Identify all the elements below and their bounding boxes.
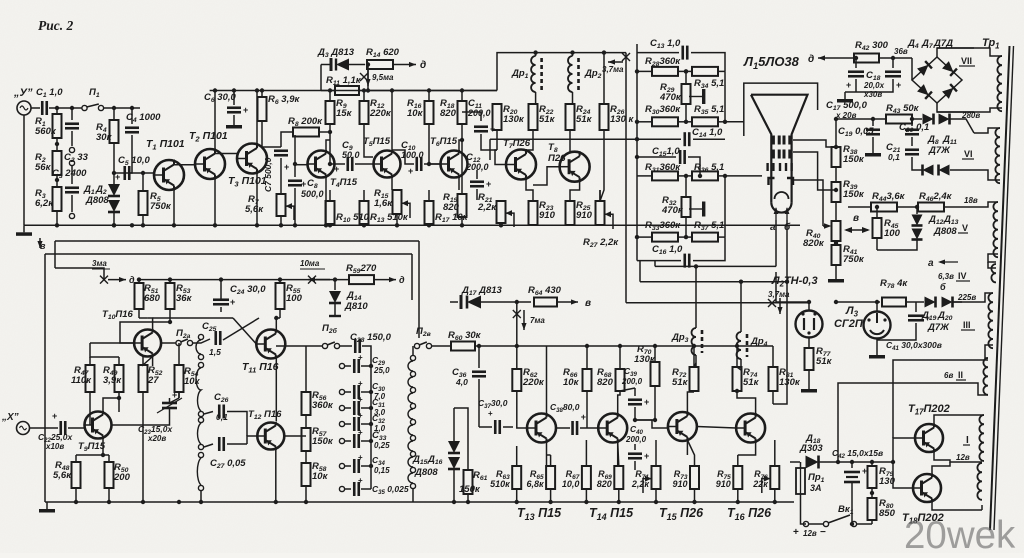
wire T15 emitter bbox=[686, 441, 688, 455]
switch П2б bbox=[322, 342, 339, 349]
wire R44 row left bbox=[848, 206, 871, 208]
wire R54 bottom bbox=[178, 392, 180, 398]
label П2в bbox=[416, 326, 431, 338]
wire Др3 top bbox=[695, 266, 697, 328]
svg-text:С7 500,0: С7 500,0 bbox=[263, 157, 273, 192]
label д sweep bbox=[399, 275, 405, 285]
svg-text:R14 620: R14 620 bbox=[366, 47, 400, 59]
wire C11 top bbox=[462, 112, 481, 121]
svg-text:R462,4к: R462,4к bbox=[919, 191, 953, 203]
resistor R33 bbox=[645, 220, 681, 242]
wire R67 top bbox=[585, 440, 587, 466]
inductor Др3 bbox=[692, 328, 703, 355]
wire T4 collector bbox=[326, 140, 330, 150]
battery terminals bbox=[803, 521, 823, 526]
wire R30 left bbox=[637, 121, 652, 123]
wire R45 top bbox=[876, 207, 878, 218]
feedback wire 2 right leg bbox=[411, 254, 413, 300]
svg-text:6в: 6в bbox=[944, 371, 953, 380]
wire R27 top bbox=[600, 167, 604, 201]
wire C38 to T14 bbox=[580, 427, 598, 429]
label 280в bbox=[961, 111, 980, 120]
wire R81 bottom bbox=[772, 391, 774, 404]
svg-text:27: 27 bbox=[147, 375, 159, 386]
wire T2 collector to T3 bbox=[215, 150, 237, 154]
wire emitter rail bbox=[76, 454, 109, 456]
svg-text:+: + bbox=[358, 428, 363, 437]
wire R43 right bbox=[912, 118, 922, 120]
wire T7 base bbox=[495, 150, 506, 165]
wire C12 bottom bbox=[476, 189, 478, 200]
winding IV bbox=[991, 264, 996, 282]
stub winding VII top bbox=[937, 48, 1002, 56]
wire T13 base bbox=[517, 420, 526, 428]
svg-text:3ма: 3ма bbox=[92, 259, 107, 268]
wire R29 bottom bbox=[685, 104, 687, 122]
inductor Др1 bbox=[531, 56, 542, 92]
wire C39 top bbox=[634, 388, 636, 396]
main bus top section bbox=[24, 224, 800, 226]
resistor R16 bbox=[407, 91, 434, 125]
resistor R59 bbox=[346, 263, 377, 284]
wire R44-R46 bbox=[897, 206, 918, 208]
svg-text:а: а bbox=[770, 222, 776, 233]
wire T8 base bbox=[533, 167, 560, 185]
capacitor C36 bbox=[452, 367, 486, 387]
resistor R64 bbox=[528, 285, 562, 307]
resistor R50 bbox=[105, 462, 131, 488]
svg-text:820: 820 bbox=[443, 202, 460, 213]
wire C20-C21 bbox=[911, 137, 913, 146]
svg-text:С1 1,0: С1 1,0 bbox=[36, 87, 63, 99]
wire R66 bottom bbox=[586, 391, 588, 428]
capacitor C25 bbox=[202, 321, 221, 357]
wire Х to C22 bbox=[30, 427, 59, 429]
wire C18b top bbox=[892, 58, 894, 68]
wire П2б to C28 bbox=[340, 345, 353, 347]
wire R73 top bbox=[687, 440, 694, 466]
wire T4 base bbox=[295, 164, 307, 166]
label П1 bbox=[89, 87, 100, 99]
transformer Тр1 core bbox=[990, 46, 1014, 530]
capacitor C1 bbox=[36, 87, 63, 115]
label в bottom-left bbox=[40, 241, 46, 251]
svg-text:6,3в: 6,3в bbox=[938, 272, 954, 281]
svg-text:20wek: 20wek bbox=[904, 514, 1016, 553]
wire R70 top bbox=[654, 346, 656, 362]
svg-text:Д810: Д810 bbox=[344, 301, 368, 312]
svg-text:Д17 Д813: Д17 Д813 bbox=[461, 285, 503, 297]
wire crossing to Т11 bbox=[223, 318, 259, 344]
svg-text:7ма: 7ма bbox=[530, 316, 545, 325]
wire R76 top bbox=[774, 440, 776, 466]
wire C4 bottom bbox=[114, 135, 132, 173]
resistor R60 bbox=[448, 330, 482, 351]
stub winding V-IV bbox=[988, 254, 998, 262]
svg-text:51к: 51к bbox=[576, 114, 593, 125]
wire R57-R58 bbox=[305, 451, 307, 463]
wire R71 top bbox=[655, 440, 657, 466]
svg-text:R43 50к: R43 50к bbox=[886, 103, 920, 115]
resistor R55 bbox=[276, 283, 303, 309]
diode Д3 bbox=[331, 58, 349, 71]
capacitor C10 bbox=[401, 140, 424, 176]
label C41 bbox=[886, 340, 942, 352]
svg-text:3,9к: 3,9к bbox=[103, 375, 122, 386]
label Д17 Д813 bbox=[461, 285, 503, 297]
capacitor C4 bbox=[125, 112, 161, 132]
svg-text:д: д bbox=[420, 60, 426, 71]
label VI bbox=[962, 149, 974, 159]
transistor Т16 bbox=[727, 413, 772, 522]
label Вк1 bbox=[838, 504, 854, 516]
capacitor C20 bbox=[899, 122, 929, 134]
resistor R63 bbox=[490, 466, 521, 489]
resistor R58 bbox=[302, 461, 329, 486]
wire С32 out bbox=[361, 423, 371, 425]
x mark 9,5ма bbox=[360, 73, 394, 82]
junction C2 top bbox=[70, 106, 74, 110]
fuse Пр1 bbox=[796, 468, 805, 494]
svg-text:9,5ма: 9,5ма bbox=[372, 73, 394, 82]
resistor R81 bbox=[769, 367, 801, 391]
wire R69 top bbox=[618, 442, 619, 466]
wire R9 bottom bbox=[329, 124, 331, 164]
label Л1 5ЛО38 bbox=[743, 54, 800, 71]
wire R8 right bbox=[319, 131, 330, 133]
svg-text:Д3 Д813: Д3 Д813 bbox=[317, 47, 355, 59]
wire to C27 bbox=[204, 444, 213, 447]
svg-text:+: + bbox=[358, 476, 363, 485]
stub winding I center bbox=[976, 461, 982, 463]
svg-text:+: + bbox=[358, 395, 363, 404]
wire R22 to T7 collector bbox=[526, 130, 533, 150]
svg-text:С19 0,05: С19 0,05 bbox=[838, 126, 874, 138]
capacitor C27 bbox=[210, 437, 246, 470]
label Др1 bbox=[511, 68, 529, 80]
capacitor C41 bbox=[908, 313, 930, 323]
svg-text:Д7Ж: Д7Ж bbox=[928, 145, 951, 156]
wire R16 bottom bbox=[429, 124, 440, 164]
wire R63 top bbox=[516, 446, 518, 466]
wire T15 to T16 bbox=[697, 427, 736, 429]
svg-text:+: + bbox=[644, 451, 649, 461]
label д CRT bbox=[808, 54, 814, 65]
arrow 3ма bbox=[108, 277, 126, 282]
x mark Л2 bbox=[768, 299, 776, 307]
wire R33 left bbox=[637, 236, 652, 238]
wire C11 bottom bbox=[481, 134, 497, 150]
wire R11 left bbox=[321, 90, 335, 92]
wire net д long vertical bbox=[625, 53, 627, 303]
wire bridge top to Tr bbox=[937, 48, 974, 57]
wire T7 emitter bbox=[526, 180, 533, 201]
resistor R56 bbox=[302, 390, 334, 415]
arrow д CRT bbox=[818, 55, 838, 60]
svg-text:100,0: 100,0 bbox=[401, 150, 424, 160]
svg-text:130к: 130к bbox=[634, 354, 656, 365]
capacitor С29 bbox=[354, 353, 390, 375]
wire R36 right bbox=[718, 175, 725, 177]
svg-text:200,0: 200,0 bbox=[625, 435, 647, 444]
svg-text:R64 430: R64 430 bbox=[528, 285, 562, 297]
svg-text:С14 1,0: С14 1,0 bbox=[692, 127, 723, 139]
svg-text:910: 910 bbox=[576, 210, 593, 221]
wire Л2 up leg bbox=[775, 272, 777, 302]
svg-text:Т11 П16: Т11 П16 bbox=[242, 361, 279, 374]
wire R3 bottom bbox=[56, 211, 58, 225]
wire C3 bottom bbox=[71, 195, 73, 212]
capacitor C28 bbox=[350, 332, 392, 353]
label Д8 Д11 Д7Ж bbox=[927, 134, 957, 156]
wire C18b bottom bbox=[845, 79, 893, 92]
svg-text:в: в bbox=[585, 298, 591, 309]
resistor R54 bbox=[175, 365, 201, 392]
inductor Др4 bbox=[737, 332, 748, 359]
wire R1-R2 bbox=[56, 138, 58, 151]
wire R74 top bbox=[736, 346, 738, 367]
wire R20 bottom bbox=[496, 130, 498, 150]
label П2б bbox=[322, 323, 338, 335]
wire contacts bottom bbox=[200, 491, 202, 502]
wire ladder right rail upper bbox=[724, 71, 726, 121]
svg-text:+: + bbox=[284, 162, 289, 172]
wire R77 bottom bbox=[808, 370, 810, 382]
potentiometer R15 bbox=[374, 188, 410, 218]
wire T13 emitter to R65 bbox=[547, 454, 551, 456]
svg-text:R33360к: R33360к bbox=[645, 220, 681, 232]
resistor R41 bbox=[832, 244, 865, 265]
resistor R30 bbox=[645, 104, 681, 126]
wire R37 right bbox=[718, 236, 725, 238]
svg-text:х10в: х10в bbox=[45, 442, 64, 451]
svg-text:VII: VII bbox=[961, 56, 972, 66]
wire R49 bottom bbox=[118, 392, 120, 412]
wire C19 bottom bbox=[872, 137, 874, 146]
svg-text:+: + bbox=[581, 412, 586, 422]
wire T6 collector bbox=[459, 124, 462, 150]
svg-text:200: 200 bbox=[113, 472, 131, 483]
svg-text:820: 820 bbox=[597, 377, 614, 388]
wire winding II top to bases bbox=[893, 360, 988, 438]
resistor R73 bbox=[672, 466, 699, 489]
plate feed stub a bbox=[654, 261, 656, 267]
resistor R4 bbox=[96, 120, 119, 143]
label 3,7ма top bbox=[602, 65, 624, 74]
capacitor C8 bbox=[288, 178, 324, 199]
feedback wire 2 bbox=[45, 253, 412, 255]
wire R75 top bbox=[737, 455, 739, 466]
diode Д14 bbox=[329, 291, 341, 303]
wire to R59 bbox=[316, 279, 349, 281]
wire R27 bottom bbox=[599, 224, 601, 226]
svg-text:III: III bbox=[963, 320, 971, 330]
wire Др1 top bbox=[535, 53, 537, 56]
wire to C9 bbox=[330, 163, 345, 165]
svg-text:910: 910 bbox=[716, 479, 731, 489]
wire T10 base bias bbox=[120, 322, 170, 343]
wire С32 in bbox=[345, 423, 351, 425]
svg-text:R443,6к: R443,6к bbox=[872, 191, 906, 203]
resistor R35 bbox=[692, 104, 724, 126]
wire П1 to R4/C4 bbox=[104, 107, 141, 109]
wire T1 collector to T2 bbox=[174, 161, 195, 165]
svg-text:С5 10,0: С5 10,0 bbox=[118, 155, 151, 167]
wire C15 right stub bbox=[688, 157, 700, 176]
wire bank common rail bbox=[370, 360, 372, 489]
wire C2 top bbox=[71, 108, 73, 120]
wire Д16 bottom bbox=[453, 469, 455, 502]
potentiometer R21 bbox=[477, 192, 514, 227]
wire R38-R39 bbox=[835, 167, 837, 182]
svg-text:R31360к: R31360к bbox=[645, 162, 681, 174]
resistor R42 bbox=[854, 40, 889, 63]
wire bridge bottom to Tr bbox=[937, 103, 974, 112]
stub winding I top bbox=[983, 414, 985, 416]
svg-text:0,25: 0,25 bbox=[374, 441, 390, 450]
resistor R66 bbox=[563, 367, 592, 391]
wire C5 to T1 bbox=[130, 172, 154, 174]
diode Д2 bbox=[108, 200, 120, 212]
svg-text:0,1: 0,1 bbox=[888, 152, 900, 162]
resistor R74 bbox=[733, 367, 760, 391]
svg-text:Т1 П101: Т1 П101 bbox=[146, 138, 185, 151]
svg-text:820: 820 bbox=[440, 108, 457, 119]
svg-text:10к: 10к bbox=[563, 377, 580, 388]
svg-text:750к: 750к bbox=[843, 254, 865, 265]
svg-text:Рис. 2: Рис. 2 bbox=[38, 18, 73, 33]
stub winding III-II bbox=[985, 345, 993, 358]
wire C23 top bbox=[170, 398, 180, 403]
capacitor C39 bbox=[621, 366, 649, 407]
resistor R75 bbox=[716, 466, 743, 489]
wire winding II bottom loop bbox=[838, 383, 988, 462]
wire R61 bottom bbox=[467, 494, 469, 502]
svg-text:+: + bbox=[358, 453, 363, 462]
wire R48 bottom bbox=[75, 488, 77, 502]
wire Др1 bottom bbox=[535, 92, 537, 104]
capacitor С30 bbox=[354, 379, 385, 401]
wire C2-C3 contact bbox=[71, 131, 73, 146]
wire Д12 top bbox=[916, 207, 918, 214]
x mark 3,7ма bbox=[622, 53, 630, 61]
resistor R38 bbox=[832, 144, 865, 167]
label Др3 bbox=[671, 332, 689, 344]
resistor R9 bbox=[326, 91, 353, 125]
capacitor C5 bbox=[115, 155, 151, 182]
svg-text:560к: 560к bbox=[35, 126, 57, 137]
transistor Т10 bbox=[102, 309, 161, 357]
capacitor C24 bbox=[213, 284, 266, 307]
wire R17 top bbox=[428, 190, 430, 201]
svg-text:С16 1,0: С16 1,0 bbox=[652, 244, 683, 256]
wire R29 top bbox=[685, 71, 687, 84]
resistor R22 bbox=[529, 104, 556, 130]
resistor R79 bbox=[868, 466, 896, 488]
switch Вк1 bbox=[823, 515, 856, 527]
wire C36 top bbox=[478, 346, 480, 368]
svg-text:12в: 12в bbox=[956, 453, 970, 462]
wire R68 top bbox=[619, 346, 621, 369]
ground C6 bbox=[226, 118, 242, 129]
capacitor C9 bbox=[342, 140, 360, 171]
CRT pins а б bbox=[770, 207, 791, 233]
wire У to C1 bbox=[31, 107, 40, 109]
svg-text:+: + bbox=[358, 379, 363, 388]
capacitor C13 bbox=[650, 38, 687, 60]
wire Д15 top bbox=[453, 408, 455, 441]
svg-text:820к: 820к bbox=[803, 238, 825, 249]
wire bridge left bbox=[911, 58, 913, 80]
wire plate feed left leg bbox=[489, 139, 491, 160]
wire П2в top bbox=[412, 346, 414, 355]
diode Д17 bbox=[467, 296, 481, 309]
wire R13 top bbox=[363, 190, 365, 201]
arrow а net bbox=[928, 258, 958, 269]
resistor R80 bbox=[868, 498, 896, 520]
svg-text:10ма: 10ма bbox=[300, 259, 320, 268]
svg-text:R10 510: R10 510 bbox=[336, 212, 370, 224]
wire ladder left rail bbox=[636, 44, 638, 261]
wire C20 top bbox=[911, 119, 913, 126]
wire C23 to T9 bbox=[112, 408, 170, 425]
wire base rail bbox=[893, 438, 915, 488]
svg-text:470к: 470к bbox=[659, 92, 682, 103]
resistor R46 bbox=[918, 191, 953, 212]
capacitor С33 bbox=[354, 428, 390, 450]
svg-text:130 к: 130 к bbox=[610, 114, 634, 125]
svg-text:36к: 36к bbox=[176, 293, 193, 304]
svg-text:225в: 225в bbox=[957, 293, 976, 302]
ground R41 bbox=[828, 272, 844, 283]
wire C14 left bbox=[637, 138, 681, 140]
wire C19 top bbox=[872, 119, 874, 126]
transistor Т15 bbox=[659, 412, 704, 522]
label в sweep out bbox=[585, 298, 591, 309]
wire contact chain loops bbox=[196, 340, 201, 485]
diode Д13 bbox=[912, 229, 923, 240]
wire T12 base bbox=[247, 436, 257, 444]
wire R38 top bbox=[835, 119, 837, 147]
wire R23 bottom bbox=[532, 224, 534, 226]
wire Л2 bottom bbox=[808, 338, 810, 349]
arrow 3,7ма bbox=[608, 59, 623, 64]
svg-text:Д808: Д808 bbox=[85, 195, 109, 206]
resistor R24 bbox=[566, 104, 593, 130]
arrow д sweep bbox=[374, 277, 396, 282]
svg-text:R42 300: R42 300 bbox=[855, 40, 889, 52]
wire Д3 left bbox=[321, 64, 330, 66]
transistor Т3 bbox=[228, 143, 267, 188]
transistor Т9 bbox=[78, 411, 112, 453]
wire to R26 bbox=[603, 53, 605, 104]
wire Л3 top bbox=[836, 302, 877, 312]
capacitor C19 bbox=[838, 126, 880, 138]
wire С35 in bbox=[345, 488, 351, 490]
stub winding VI bottom bbox=[974, 170, 1000, 180]
capacitor C12 bbox=[465, 152, 491, 189]
capacitor C15 bbox=[652, 146, 685, 164]
winding III bbox=[988, 293, 993, 348]
svg-text:+: + bbox=[486, 179, 491, 189]
label П2а bbox=[176, 328, 191, 340]
capacitor С31 bbox=[354, 395, 385, 417]
label Д19 Д20 Д7Ж bbox=[921, 310, 953, 333]
svg-text:Л15ЛО38: Л15ЛО38 bbox=[743, 54, 800, 71]
label б net bbox=[940, 282, 946, 292]
resistor R11 bbox=[326, 75, 362, 95]
wire T10 to П2а bbox=[162, 342, 176, 344]
